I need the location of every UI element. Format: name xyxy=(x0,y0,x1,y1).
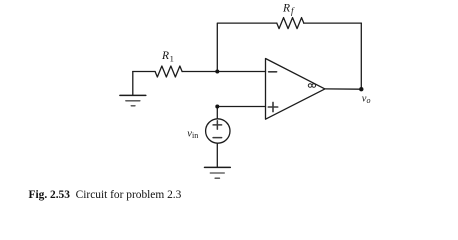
wire xyxy=(216,143,218,167)
op-amp U1 xyxy=(266,59,325,120)
ground (bottom) xyxy=(205,167,231,178)
wire xyxy=(217,106,265,108)
wire xyxy=(325,88,361,90)
source minus sign xyxy=(213,137,222,139)
op-amp infinity gain symbol xyxy=(308,84,315,88)
node (output) xyxy=(359,87,363,91)
resistor R1 xyxy=(155,66,182,77)
svg-text:Rf: Rf xyxy=(282,2,295,16)
svg-text:vin: vin xyxy=(187,128,198,140)
wire xyxy=(216,107,218,119)
wire xyxy=(304,22,362,24)
wire xyxy=(182,71,265,73)
resistor Rf xyxy=(277,18,304,29)
node (feedback / inverting input) xyxy=(215,70,219,74)
source Vin circle xyxy=(206,119,230,143)
svg-text:R1: R1 xyxy=(161,50,174,64)
wire xyxy=(133,71,155,73)
wire xyxy=(217,23,276,71)
caption Fig. 2.53 xyxy=(29,189,182,201)
source plus sign xyxy=(213,121,222,129)
wire xyxy=(360,23,362,89)
node (non-inverting input / source top) xyxy=(215,105,219,109)
svg-text:vo: vo xyxy=(362,94,371,106)
op-amp minus input sign xyxy=(269,71,277,73)
op-amp plus input sign xyxy=(268,102,277,111)
ground (left) xyxy=(120,72,146,106)
